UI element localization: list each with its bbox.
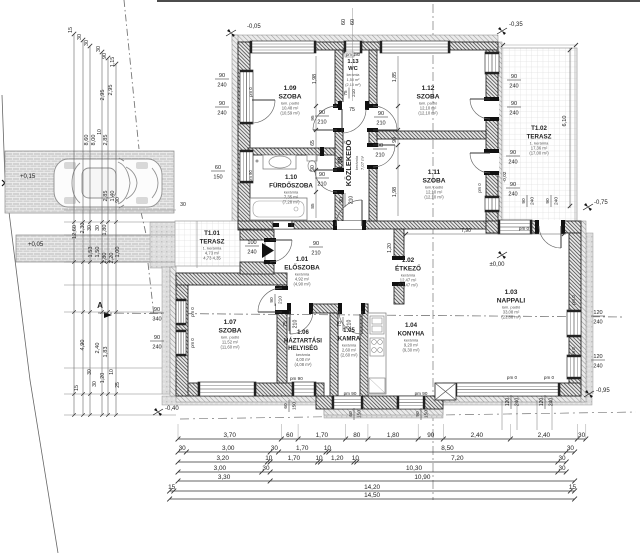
interior wall eloszoba-etkezo: [394, 229, 404, 304]
svg-text:210: 210: [278, 296, 284, 304]
svg-text:+0,15: +0,15: [20, 174, 36, 180]
svg-text:2,30: 2,30: [80, 223, 86, 234]
corridor inner dim line west: [315, 56, 317, 218]
level -0,75 right: [584, 203, 588, 207]
svg-text:SZOBA: SZOBA: [416, 93, 439, 100]
svg-text:2,85: 2,85: [103, 135, 109, 146]
door terrace 1.12: [485, 99, 499, 119]
svg-text:210: 210: [375, 153, 384, 159]
window east nappali b: [567, 355, 581, 379]
gap in wall above entry: [273, 221, 294, 229]
svg-text:1,98: 1,98: [312, 74, 318, 84]
svg-text:90: 90: [154, 307, 160, 313]
entrance door: [265, 240, 275, 262]
svg-text:90: 90: [377, 143, 383, 149]
svg-text:240: 240: [217, 83, 226, 89]
rotated dim step window: [348, 408, 363, 420]
wall north of nappali: [486, 221, 581, 233]
insulation band bottom right: [443, 396, 581, 402]
svg-text:30: 30: [95, 225, 101, 231]
dim pair door eloszoba: [309, 241, 323, 257]
dim pair nappali east a: [591, 310, 605, 326]
svg-text:-0,75: -0,75: [594, 200, 608, 206]
svg-text:A: A: [97, 301, 103, 310]
bottom guide ticks up: [177, 424, 179, 439]
svg-text:3,30: 3,30: [218, 474, 231, 481]
kitchen counter: [368, 313, 386, 394]
door 1.12 from corridor: [368, 106, 378, 130]
svg-text:-0,05: -0,05: [247, 24, 261, 30]
svg-text:6,10: 6,10: [562, 116, 568, 127]
svg-text:(7,28 m²): (7,28 m²): [283, 200, 301, 205]
svg-text:90: 90: [510, 182, 516, 188]
interior wall south of eloszoba: [276, 304, 368, 313]
svg-text:15: 15: [168, 484, 176, 491]
bathroom bathtub: [250, 198, 307, 220]
svg-text:60: 60: [348, 411, 354, 417]
svg-text:(2,10 m²): (2,10 m²): [345, 83, 361, 87]
svg-text:3,70: 3,70: [223, 432, 236, 439]
svg-text:SZOBA: SZOBA: [278, 93, 301, 100]
bottom dimension row 1: [178, 438, 586, 440]
window north nappali terrace: [498, 220, 532, 234]
window west wall 1.07 a: [176, 299, 186, 325]
walkway stipple bottom right: [443, 396, 592, 405]
plot boundary line left: [2, 95, 58, 553]
svg-text:(4,90 m²): (4,90 m²): [294, 282, 312, 287]
svg-text:240: 240: [509, 111, 518, 117]
exterior wall bottom left: [176, 383, 324, 396]
door WC: [341, 102, 366, 110]
svg-text:pm 0: pm 0: [571, 295, 576, 305]
svg-text:240: 240: [508, 192, 517, 198]
svg-text:SZOBA: SZOBA: [218, 327, 241, 334]
svg-text:60: 60: [286, 432, 294, 439]
svg-text:1.03: 1.03: [505, 289, 518, 296]
svg-text:7,90: 7,90: [461, 228, 471, 234]
svg-text:90: 90: [511, 101, 517, 107]
wall north of 1.07: [176, 273, 287, 285]
svg-text:30: 30: [180, 202, 186, 208]
window east 1.12 terrace: [485, 52, 499, 74]
window south nappali large: [455, 383, 560, 396]
interior wall WC east: [369, 50, 377, 106]
svg-text:1,83: 1,83: [103, 347, 109, 358]
walkway stipple bottom left: [162, 396, 324, 405]
svg-text:1.13: 1.13: [347, 59, 359, 65]
svg-text:80: 80: [353, 432, 361, 439]
svg-text:4,90: 4,90: [80, 340, 86, 351]
svg-text:240: 240: [247, 250, 256, 256]
bottom dimension row 6: [170, 490, 575, 492]
svg-text:30: 30: [262, 465, 270, 472]
svg-text:120: 120: [539, 398, 545, 407]
svg-text:4,73 4,35: 4,73 4,35: [203, 256, 221, 261]
left dimension cluster lines: [73, 34, 75, 415]
svg-text:pm 0: pm 0: [571, 347, 576, 357]
insulation band top: [232, 35, 498, 42]
svg-text:30: 30: [567, 445, 575, 452]
dim rotated wc door: [343, 88, 356, 99]
svg-text:3,00: 3,00: [214, 465, 227, 472]
door terrace 1.11: [485, 151, 499, 173]
level -0,35 top right: [498, 27, 502, 31]
svg-text:2,85: 2,85: [103, 191, 109, 202]
svg-text:NAPPALI: NAPPALI: [497, 297, 526, 304]
svg-text:KAMRA: KAMRA: [338, 336, 361, 342]
svg-text:85: 85: [310, 203, 315, 209]
svg-text:210: 210: [347, 320, 353, 329]
svg-text:210: 210: [293, 320, 299, 329]
svg-text:14,20: 14,20: [364, 484, 380, 491]
window left wall bathroom: [240, 150, 253, 183]
window west wall 1.07 b: [176, 330, 186, 356]
svg-text:150: 150: [292, 402, 298, 410]
interior wall between 1.12 and 1.11: [377, 131, 486, 139]
svg-text:90: 90: [427, 432, 435, 439]
terrace T1.02 edge line: [574, 48, 576, 221]
svg-text:pm 0: pm 0: [190, 307, 195, 317]
entrance arrow: [262, 243, 274, 258]
svg-text:TERASZ: TERASZ: [200, 238, 225, 245]
interior wall haztartasi-kamra: [330, 313, 338, 396]
svg-text:90: 90: [219, 101, 225, 107]
level -0,95 bottom right: [585, 390, 589, 394]
svg-text:100: 100: [247, 240, 256, 246]
dim pair nappali east b: [591, 354, 605, 370]
corridor inner dim line east: [397, 56, 399, 216]
svg-text:(23,88 m²): (23,88 m²): [501, 315, 521, 320]
svg-text:60: 60: [341, 19, 347, 25]
interior wall kamra east: [360, 304, 368, 396]
svg-text:T1.01: T1.01: [204, 230, 220, 237]
wc basin: [345, 52, 354, 57]
svg-text:1,70: 1,70: [296, 445, 309, 452]
walkway band to entrance: [16, 235, 176, 262]
svg-text:pm 0: pm 0: [477, 183, 482, 193]
svg-text:SZOBA: SZOBA: [422, 177, 445, 184]
dim pair terrace door b: [506, 182, 520, 198]
door bathroom from corridor: [334, 170, 344, 192]
walkway stipple right side: [586, 233, 593, 394]
svg-text:-0,02: -0,02: [502, 171, 508, 182]
svg-text:1,50 m²: 1,50 m²: [347, 78, 361, 82]
exterior wall bottom right: [443, 383, 581, 396]
svg-text:30: 30: [84, 40, 90, 46]
dim rotated door kamra: [337, 317, 353, 331]
arc at bathroom wall gap: [272, 207, 292, 227]
vguides under nappali south: [501, 400, 503, 430]
window top wall WC: [344, 41, 362, 53]
insulation band left upper: [232, 35, 238, 230]
insulation band left 1.07: [170, 267, 176, 396]
svg-text:HÁZTARTÁSI: HÁZTARTÁSI: [284, 337, 322, 344]
svg-text:(17,00 m²): (17,00 m²): [529, 151, 549, 156]
svg-text:ÉTKEZŐ: ÉTKEZŐ: [395, 263, 421, 272]
svg-text:90: 90: [511, 74, 517, 80]
dim pair door bathroom: [315, 172, 329, 188]
svg-text:1.02: 1.02: [402, 257, 415, 264]
svg-text:240: 240: [593, 364, 602, 370]
door nappali to terrace: [538, 220, 562, 234]
svg-text:240: 240: [515, 398, 521, 407]
svg-text:(12,10 m²): (12,10 m²): [424, 195, 444, 200]
svg-text:120: 120: [505, 398, 511, 407]
svg-text:(12,10 m²): (12,10 m²): [418, 111, 438, 116]
svg-text:pm 0: pm 0: [507, 375, 518, 380]
exterior wall west 1.07: [176, 273, 188, 396]
svg-text:150: 150: [424, 410, 430, 418]
svg-text:30: 30: [558, 455, 566, 462]
terrace inner rotated pairs: [521, 195, 536, 207]
interior wall corridor east: [369, 130, 377, 221]
svg-text:90: 90: [319, 172, 325, 178]
svg-text:120: 120: [593, 354, 602, 360]
svg-text:1.11: 1.11: [428, 169, 441, 176]
svg-text:pm 180: pm 180: [346, 52, 361, 57]
entrance walkway connector: [150, 222, 176, 268]
dim pair entrance door: [245, 240, 259, 256]
rotated dim 120-240 south a: [505, 395, 521, 409]
svg-text:60: 60: [283, 403, 289, 409]
dim pair door 1.09: [315, 110, 329, 126]
svg-text:1,15: 1,15: [110, 57, 116, 68]
section dashed line lower right: [180, 412, 636, 419]
svg-text:90: 90: [392, 137, 398, 143]
svg-text:pm 90: pm 90: [248, 170, 253, 182]
svg-text:30: 30: [558, 465, 566, 472]
svg-text:pm 0: pm 0: [190, 338, 195, 348]
svg-text:75: 75: [283, 321, 289, 327]
svg-text:10: 10: [315, 455, 323, 462]
section line A-A: [98, 313, 622, 317]
vestibule south wall stub: [240, 262, 274, 274]
svg-text:15: 15: [74, 385, 80, 391]
svg-text:1,80: 1,80: [387, 432, 400, 439]
svg-text:1,20: 1,20: [331, 455, 344, 462]
walkway stipple left of room 1.07: [162, 267, 170, 394]
window south step kamra: [332, 396, 363, 409]
svg-text:210: 210: [311, 251, 320, 257]
svg-text:1,00: 1,00: [115, 247, 121, 258]
walkway stipple bottom step: [324, 409, 443, 418]
door kamra: [341, 303, 364, 314]
svg-text:2,40: 2,40: [471, 432, 484, 439]
left cluster intersection ticks: [72, 220, 76, 224]
svg-text:3,00: 3,00: [222, 445, 235, 452]
left dimension cluster top ticks: [72, 32, 76, 36]
driveway paved band: [5, 151, 174, 213]
kitchen stove: [370, 338, 384, 356]
window left wall 1.09 ribbon: [240, 70, 253, 124]
svg-text:240: 240: [593, 320, 602, 326]
dim pair 1.07 window a: [150, 307, 164, 323]
svg-text:30: 30: [77, 34, 83, 40]
svg-text:90: 90: [415, 411, 421, 417]
svg-text:95: 95: [310, 115, 315, 121]
svg-text:90: 90: [378, 111, 384, 117]
svg-text:±0,00: ±0,00: [490, 262, 506, 268]
svg-text:15: 15: [569, 484, 577, 491]
svg-text:65: 65: [310, 140, 316, 146]
left cluster horizontal connector lines: [64, 209, 176, 211]
door eloszoba to etkezo: [393, 258, 405, 284]
svg-text:1,20: 1,20: [100, 373, 106, 384]
svg-text:pm 90: pm 90: [415, 391, 428, 396]
svg-text:1,70: 1,70: [316, 432, 329, 439]
level +0,00 nappali: [498, 251, 502, 255]
svg-text:240: 240: [509, 84, 518, 90]
svg-text:1,50: 1,50: [95, 247, 101, 258]
svg-text:90: 90: [510, 150, 516, 156]
svg-text:-0,35: -0,35: [509, 22, 523, 28]
svg-text:14,50: 14,50: [364, 492, 380, 499]
bottom dimension row 5: [178, 480, 575, 482]
svg-text:(9,30 m²): (9,30 m²): [403, 348, 421, 353]
vestibule north wall stub: [240, 230, 274, 240]
svg-text:12,60: 12,60: [72, 225, 78, 239]
dim pair left wall window b: [215, 101, 229, 117]
svg-text:2,95: 2,95: [108, 85, 114, 96]
svg-text:8,50: 8,50: [441, 445, 454, 452]
svg-text:60: 60: [215, 165, 221, 171]
svg-text:pm 0: pm 0: [248, 87, 253, 97]
bathroom toilet: [307, 155, 317, 161]
kitchen sink: [370, 316, 384, 334]
svg-text:90: 90: [313, 241, 319, 247]
svg-text:2,40: 2,40: [538, 432, 551, 439]
svg-text:1.09: 1.09: [284, 85, 297, 92]
vertical section line: [432, 4, 434, 500]
svg-text:240: 240: [508, 160, 517, 166]
svg-text:(17,47 m²): (17,47 m²): [398, 283, 418, 288]
svg-text:1,98: 1,98: [392, 187, 398, 197]
svg-text:KONYHA: KONYHA: [398, 330, 425, 337]
exterior wall top: [238, 42, 498, 50]
svg-text:1.06: 1.06: [297, 330, 309, 336]
svg-text:210: 210: [317, 182, 326, 188]
wall south of top block: [238, 221, 486, 229]
svg-text:1,20: 1,20: [387, 243, 393, 253]
window top wall room 1.12: [380, 41, 450, 53]
exterior wall bottom step: [316, 396, 443, 409]
svg-text:1.04: 1.04: [405, 322, 418, 329]
svg-text:150: 150: [213, 175, 222, 181]
svg-text:ELŐSZOBA: ELŐSZOBA: [284, 262, 320, 271]
svg-text:8,00: 8,00: [91, 135, 97, 146]
svg-text:60: 60: [350, 19, 356, 25]
dim 6,10 terrace right: [569, 48, 571, 208]
kitchen fridge: [369, 378, 385, 393]
exterior wall east nappali: [569, 233, 581, 396]
svg-text:10: 10: [265, 455, 273, 462]
svg-text:(10,59 m²): (10,59 m²): [280, 111, 300, 116]
svg-text:-0,95: -0,95: [596, 388, 610, 394]
svg-text:(2,60 m²): (2,60 m²): [341, 353, 359, 358]
svg-text:90: 90: [115, 197, 121, 203]
door 1.09 from corridor: [334, 106, 344, 130]
dim pair 1.07 window b: [150, 335, 164, 351]
window south wall 1.07: [198, 382, 256, 396]
dim pair terrace window b: [507, 101, 521, 117]
survey point marker: [2, 180, 8, 186]
svg-text:75: 75: [349, 107, 355, 113]
bottom dimension row 2: [178, 451, 575, 453]
svg-text:15: 15: [68, 27, 74, 33]
svg-text:7,07 m²: 7,07 m²: [360, 155, 365, 170]
rotated dim 120-240 south b: [539, 395, 555, 409]
interior wall corridor west: [335, 50, 343, 221]
insulation band right: [581, 221, 586, 402]
svg-text:90: 90: [154, 335, 160, 341]
terrace T1.02 tiled floor: [502, 48, 577, 221]
svg-text:90: 90: [521, 198, 527, 204]
svg-text:25: 25: [115, 382, 121, 388]
svg-text:+0,05: +0,05: [28, 242, 44, 248]
svg-text:30: 30: [87, 369, 93, 375]
dim rotated pair door 1.07: [269, 294, 284, 306]
room label 1.08 KOZLEKEDO: [337, 140, 365, 187]
svg-text:1.08: 1.08: [337, 156, 344, 169]
svg-text:120: 120: [593, 310, 602, 316]
insulation band bottom step: [324, 409, 443, 415]
svg-text:FÜRDŐSZOBA: FÜRDŐSZOBA: [269, 182, 313, 189]
svg-text:(11,60 m²): (11,60 m²): [220, 345, 240, 350]
interior wall between 1.09 and bathroom: [248, 148, 335, 155]
svg-text:10: 10: [324, 445, 332, 452]
door corridor to eloszoba: [336, 221, 363, 229]
svg-text:TERASZ: TERASZ: [527, 133, 552, 140]
svg-text:90: 90: [219, 73, 225, 79]
svg-text:1,70: 1,70: [288, 455, 301, 462]
exterior wall left upper: [238, 42, 250, 230]
car: [54, 158, 162, 208]
door 1.07: [276, 288, 288, 312]
window south wall haztartasi: [292, 382, 316, 396]
window south step konyha: [397, 396, 425, 409]
svg-text:-0,40: -0,40: [165, 406, 179, 412]
sheet top border line: [157, 0, 640, 2]
svg-text:10: 10: [352, 455, 360, 462]
svg-text:90: 90: [339, 197, 345, 203]
svg-text:30: 30: [92, 381, 98, 387]
door 1.11 from corridor: [368, 145, 378, 167]
svg-text:pm 90: pm 90: [344, 391, 357, 396]
svg-text:10,90: 10,90: [414, 474, 430, 481]
svg-text:10,30: 10,30: [406, 465, 422, 472]
svg-text:WC: WC: [348, 66, 358, 72]
svg-text:1.12: 1.12: [422, 85, 435, 92]
dim rotated pair corridor door: [339, 193, 355, 207]
svg-text:KÖZLEKEDŐ: KÖZLEKEDŐ: [344, 140, 353, 187]
chimney: [435, 383, 456, 400]
svg-text:240: 240: [549, 398, 555, 407]
terrace T1.01 tiled floor: [175, 221, 240, 266]
window east 1.11 terrace: [485, 196, 499, 212]
sash arc on left window: [252, 100, 275, 123]
bottom dimension row 7: [170, 498, 575, 500]
bottom dimension row 3: [178, 461, 566, 463]
svg-text:210: 210: [317, 120, 326, 126]
svg-text:10: 10: [97, 129, 103, 135]
window top wall room 1.09: [250, 41, 316, 53]
svg-text:150: 150: [357, 410, 363, 418]
svg-text:8,60: 8,60: [84, 135, 90, 146]
svg-text:3,20: 3,20: [216, 455, 229, 462]
svg-text:7,20: 7,20: [451, 455, 464, 462]
dim pair door 1.11: [373, 143, 387, 159]
svg-text:30: 30: [578, 432, 586, 439]
